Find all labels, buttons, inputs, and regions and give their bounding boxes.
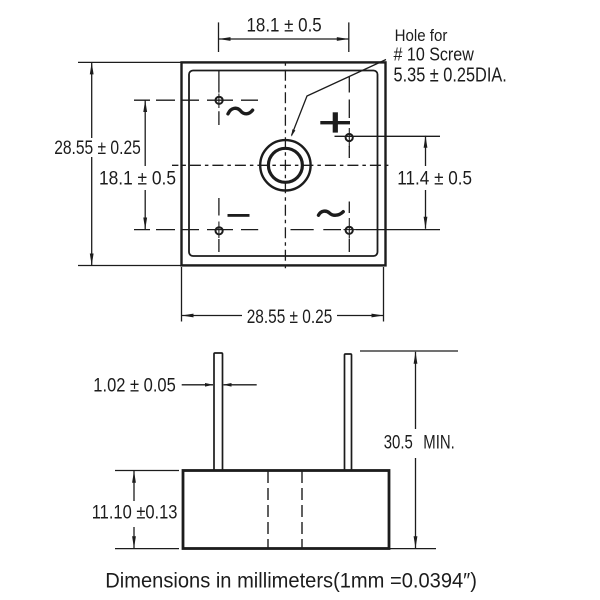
left dimension extension bottom — [78, 265, 182, 267]
svg-text:18.1 ± 0.5: 18.1 ± 0.5 — [99, 168, 176, 189]
AC tilde symbol bottom-right — [319, 211, 344, 215]
right dimension line 11.4 — [425, 136, 427, 166]
lead length dimension line 30.5 — [415, 352, 417, 429]
svg-text:5.35 ± 0.25DIA.: 5.35 ± 0.25DIA. — [394, 64, 507, 86]
side view body outline — [183, 471, 389, 549]
pin centerline vertical top-left — [218, 70, 220, 125]
left dimension line 28.55 — [91, 62, 93, 138]
svg-text:28.55 ± 0.25: 28.55 ± 0.25 — [54, 138, 141, 159]
hidden hole line left in body — [267, 471, 269, 549]
horizontal centerline of package — [172, 164, 388, 166]
terminal pin top-left — [216, 97, 223, 104]
svg-text:1.02 ± 0.05: 1.02 ± 0.05 — [93, 375, 176, 396]
svg-text:18.1 ± 0.5: 18.1 ± 0.5 — [247, 16, 322, 37]
body height extension line bottom — [115, 548, 179, 550]
hidden hole line right in body — [301, 471, 303, 549]
bottom dimension extension line left — [181, 267, 183, 322]
lead length extension line top — [360, 350, 458, 352]
mounting hole inner circle — [268, 148, 302, 182]
svg-text:Hole for: Hole for — [395, 26, 448, 45]
svg-text:Dimensions in millimeters(1mm: Dimensions in millimeters(1mm =0.0394″) — [105, 570, 477, 593]
svg-text:11.4 ± 0.5: 11.4 ± 0.5 — [397, 169, 472, 190]
AC tilde symbol top-left — [228, 108, 253, 114]
top dimension line 18.1 — [219, 38, 349, 40]
lead width dimension arrows 1.02 — [182, 384, 213, 386]
top dimension extension line right — [348, 22, 350, 52]
vertical centerline of package — [284, 62, 286, 268]
pin centerline vertical bottom-right — [348, 202, 350, 253]
pin centerline vertical bottom-left — [218, 198, 220, 252]
mounting hole outer circle — [260, 140, 310, 190]
top dimension extension line left — [218, 22, 220, 52]
leader line from hole note — [292, 60, 387, 136]
plus terminal symbol — [320, 112, 350, 132]
svg-text:# 10 Screw: # 10 Screw — [394, 45, 475, 65]
pin centerline horizontal bottom-left to bottom-right — [134, 229, 341, 231]
svg-text:30.5: 30.5 — [384, 433, 413, 454]
extension line from lower right pin to 11.4 dimension — [356, 229, 440, 231]
pin centerline vertical top-right — [348, 77, 350, 159]
terminal pin bottom-right — [346, 227, 353, 234]
body height dimension line 11.10 — [133, 471, 135, 501]
terminal pin bottom-left — [216, 227, 223, 234]
package inner square outline — [189, 71, 378, 257]
inner vertical dimension line 18.1 — [144, 100, 146, 166]
package outer square outline — [182, 62, 386, 265]
svg-text:28.55 ± 0.25: 28.55 ± 0.25 — [247, 307, 333, 328]
left lead of side view — [214, 353, 223, 471]
minus terminal symbol — [228, 214, 250, 217]
left dimension extension top — [78, 61, 182, 63]
body height extension line top — [115, 470, 179, 472]
svg-text:MIN.: MIN. — [423, 433, 455, 454]
bottom dimension line 28.55 — [182, 315, 243, 317]
right lead of side view — [345, 354, 352, 471]
bottom dimension extension line right — [383, 267, 385, 322]
terminal pin top-right — [346, 134, 353, 141]
svg-text:11.10 ±0.13: 11.10 ±0.13 — [92, 502, 178, 523]
lead length extension line bottom — [390, 548, 436, 550]
pin centerline horizontal top-left — [134, 99, 258, 101]
extension line from plus pin to 11.4 dimension — [335, 135, 441, 137]
